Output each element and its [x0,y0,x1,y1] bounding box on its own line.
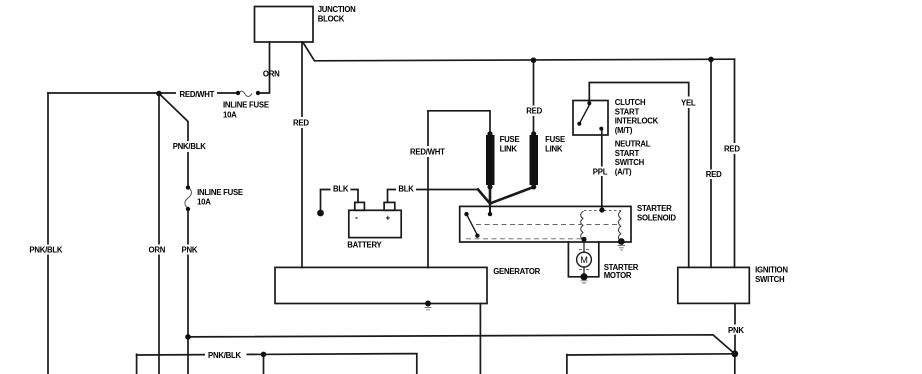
svg-text:-: - [355,213,358,223]
wire battery BLK left [321,190,359,214]
svg-text:SWITCH: SWITCH [755,275,785,284]
svg-text:MOTOR: MOTOR [604,271,632,280]
svg-text:ORN: ORN [149,245,166,254]
wire V leg from BLK [478,190,490,204]
wire RED/WHT vertical to generator [427,111,429,268]
svg-text:RED: RED [706,170,722,179]
fuse link right bar [530,135,539,185]
wire V leg from left fuse link [489,187,492,204]
solenoid coil left [581,212,583,240]
svg-text:INLINE FUSE: INLINE FUSE [197,188,243,197]
svg-text:PNK/BLK: PNK/BLK [208,351,242,360]
wire battery BLK right [388,190,479,203]
node motor bottom [580,273,587,280]
node clutch switch right [599,127,603,131]
svg-text:M: M [580,255,587,265]
svg-text:LINK: LINK [545,145,563,154]
ground below motor [581,281,588,283]
node fuse F1 left [236,91,240,95]
node bus at RED right [708,57,714,63]
wire RED junction block to generator [301,42,303,268]
wire ORN vertical [158,94,160,374]
svg-text:+: + [386,214,391,223]
wire PNK vertical lower [187,209,189,374]
motor terminal ticks bottom [579,269,589,271]
motor terminal ticks top [579,249,589,251]
dashed solenoid bottom line [466,238,584,240]
svg-text:INLINE FUSE: INLINE FUSE [223,101,269,110]
svg-text:JUNCTION: JUNCTION [318,5,356,14]
svg-text:LINK: LINK [500,145,518,154]
inline fuse F1 squiggle [239,91,252,96]
ground below solenoid right coil [618,246,626,251]
svg-text:FUSE: FUSE [500,135,520,144]
clutch switch arm [579,105,589,124]
svg-text:START: START [615,149,640,158]
svg-text:SWITCH: SWITCH [615,158,645,167]
node RED/WHT junction [156,91,162,97]
svg-text:FUSE: FUSE [545,135,565,144]
wire PNK ignition bottom [734,303,736,353]
battery terminal positive [384,202,395,210]
wire PPL to solenoid [601,129,603,210]
node bus at RED drop [531,57,537,63]
svg-text:RED/WHT: RED/WHT [410,148,445,157]
svg-text:YEL: YEL [681,98,696,107]
svg-text:STARTER: STARTER [637,204,672,213]
wire RED drop to fuse link right [533,60,535,137]
wire V into solenoid [489,203,491,215]
svg-text:GENERATOR: GENERATOR [493,267,540,276]
dashed solenoid mid line [476,224,618,226]
svg-text:CLUTCH: CLUTCH [615,98,646,107]
svg-text:PNK/BLK: PNK/BLK [29,245,63,254]
wire bottom right side [566,355,568,374]
wire bottom right horizontal [567,354,735,355]
svg-text:RED/WHT: RED/WHT [180,90,215,99]
node generator bottom [425,301,431,307]
svg-text:INTERLOCK: INTERLOCK [615,117,659,126]
starter solenoid box [460,206,631,242]
svg-text:BLK: BLK [398,185,414,194]
node fuse link left top [487,131,492,136]
battery terminal negative [355,202,365,210]
starter motor terminal top [583,243,585,253]
solenoid switch arm [467,215,477,235]
node solenoid PPL entry [599,207,604,212]
svg-text:PNK/BLK: PNK/BLK [173,142,207,151]
starter motor box [568,242,598,277]
wire bottom box right side [416,354,418,374]
svg-text:RED: RED [293,118,309,127]
wire generator drop [479,304,481,374]
svg-text:NEUTRAL: NEUTRAL [615,140,651,149]
battery box [349,210,401,237]
wire PNK/BLK left vertical [47,93,49,374]
svg-text:IGNITION: IGNITION [755,265,788,274]
starter motor terminal bottom [583,267,585,277]
node PNK ignition junction [731,350,738,357]
wire RED/WHT corner to fuse link left [428,111,490,136]
node fuse link right bottom [531,184,536,189]
wire bottom box left side [136,354,138,374]
svg-text:10A: 10A [223,111,237,120]
svg-text:RED: RED [724,145,740,154]
node solenoid switch top [464,212,468,216]
node coil right bottom [618,238,625,245]
svg-text:PNK: PNK [182,245,198,254]
svg-text:RED: RED [526,107,542,116]
junction block [255,7,314,43]
svg-text:ORN: ORN [263,70,280,79]
inline fuse F2 squiggle [185,187,192,208]
wire RED drop to ignition [710,59,712,267]
wire RED right drop to ignition [734,59,736,267]
node solenoid V entry [488,212,492,216]
node fuse F1 right [256,91,260,95]
node battery BLK ground dot [317,210,324,217]
node coil left bottom [581,237,586,242]
starter motor circle [577,252,592,267]
svg-text:(A/T): (A/T) [615,167,632,176]
node fuse F2 top [186,185,190,189]
wire PNK/BLK bottom horizontal [137,354,417,355]
node clutch switch left [577,122,581,126]
generator box [275,267,487,303]
node fuse link right top [531,131,536,136]
wire PNK long horizontal [188,335,735,354]
node fuse F2 bottom [186,207,190,211]
clutch start interlock box [573,101,608,136]
ground below generator dot [425,308,432,310]
white backings for on-wire labels [27,88,747,360]
svg-text:PPL: PPL [593,167,608,176]
wire YEL clutch to ignition switch [589,83,688,268]
node fuse link left bottom [487,184,492,189]
wire RED/WHT horizontal left [48,92,238,94]
wire PNK/BLK diagonal to PNK vertical [159,94,188,188]
wire top bus RED [303,43,735,61]
wire PNK below junction [734,354,736,374]
ignition switch box [678,267,750,303]
dashed internals of solenoid [466,211,621,239]
svg-text:SOLENOID: SOLENOID [637,213,676,222]
svg-text:BLOCK: BLOCK [318,15,345,24]
svg-text:10A: 10A [197,198,211,207]
node PNK horizontal tap [185,334,191,340]
solenoid coil right [619,211,621,241]
svg-text:(M/T): (M/T) [615,126,633,135]
svg-text:PNK: PNK [728,326,744,335]
wire ORN junction block to inline fuse [258,42,270,93]
node clutch switch top [587,101,591,105]
wire V leg from right fuse link [490,187,534,204]
node PNK/BLK bottom tap [261,352,267,358]
fuse link left bar [486,135,495,185]
svg-text:BATTERY: BATTERY [347,241,382,250]
wire bottom stub from dot [263,354,265,374]
svg-text:START: START [615,107,640,116]
svg-text:BLK: BLK [333,185,349,194]
ground tick marks [425,246,626,310]
node solenoid switch bottom [475,234,479,238]
dashed link coil tops [584,210,621,212]
